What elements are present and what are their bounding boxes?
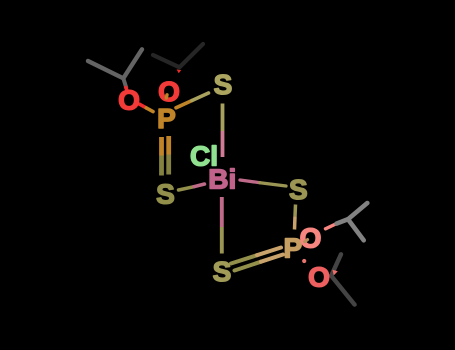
wire Bi-S(right) bond: khaki half [260,183,286,186]
wire P1-O(right) bond visible tan dot between labels [165,95,169,98]
svg-text:O: O [300,223,322,254]
svg-text:S: S [213,256,232,287]
wire CH-O red stub wedge of isopropyl group 2 [177,69,182,73]
svg-text:S: S [156,178,175,209]
svg-text:S: S [289,174,308,205]
svg-text:Bi: Bi [208,164,236,195]
svg-text:P: P [157,103,176,134]
wire O-P bond (left O to P1): red half [140,104,147,108]
wire P1=S double bond line 2 lower khaki [166,155,171,175]
wire P1=S double bond line 1 upper gold [159,137,164,156]
wire Bi-S(right) bond: rose half [240,180,260,183]
wire S(left)-Bi bond: rose half [194,184,205,187]
wire S(left)-Bi bond: khaki half [179,187,195,190]
wire CH3-CH bond of isopropyl group 2 (top, very dark gray) [153,55,180,67]
svg-text:O: O [308,262,330,293]
wire O1-CH bond: gray half [337,219,349,223]
wire CH-CH3 bond isopropyl 3 upper [348,203,367,219]
svg-text:O: O [118,85,140,116]
wire CH-CH3 bond isopropyl 4 lower [331,276,354,305]
wire S(right)-P2 bond: tan half [293,217,297,230]
wire Bi-S(bottom) bond: rose half [220,197,224,227]
wire S(bottom)=P2 double bond line 1 tan half [257,248,281,256]
wire O2-CH salmon stub of isopropyl 4 [332,270,337,276]
wire S(bottom)=P2 double bond line 2 tan half [261,255,283,262]
wire P2-O2 bond visible salmon dot [302,259,306,263]
wire CH-CH3 bond of isopropyl group 1 [123,49,142,78]
wire O1-CH bond (bottom right isopropyl 3): salmon half [326,224,337,229]
svg-text:S: S [214,69,233,100]
wire CH-CH3 bond of isopropyl group 2 [180,44,204,67]
wire P1=S double bond line 2 upper gold [166,136,171,155]
wire P1-S bond to top S: khaki half [192,93,209,101]
wire P1-S bond to top S: gold half [176,101,192,108]
wire CH3-CH bond isopropyl 4 upper [331,254,341,275]
wire S(bottom)=P2 double bond line 1 khaki half [231,255,257,263]
wire O-P bond (left O to P1): gold half [146,108,153,112]
wire P1=S double bond line 1 lower khaki [159,156,164,176]
wire CH-CH3 bond isopropyl 3 lower [348,219,364,240]
wire CH-O bond of isopropyl group 1 (red half) [126,88,127,91]
wire CH-O bond of isopropyl group 1 (gray half) [123,78,126,87]
wire Bi-S(bottom) bond: khaki half [220,227,224,254]
wire CH3-CH bond of isopropyl group 1 (top left, medium gray) [88,61,123,78]
wire S(bottom)=P2 double bond line 2 khaki half [235,262,262,271]
wire S(right)-P2 bond: khaki half [293,205,297,217]
wire S(top)-Bi bond: khaki half [221,104,225,132]
wire S(top)-Bi bond: rose half [221,131,225,157]
wire P2-O1 bond visible tan dot inside O ring [305,240,308,242]
